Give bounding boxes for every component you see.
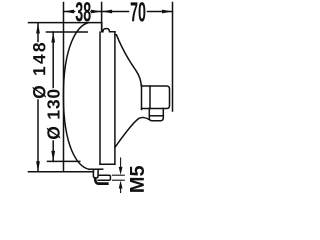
dim line d148 (37, 23, 39, 42)
dimension 38 line (64, 11, 75, 13)
extension line top130 (46, 31, 87, 33)
label d148 (33, 43, 46, 98)
M5 arrow shaft bottom (120, 188, 122, 193)
extension line top148 (29, 22, 102, 24)
extension line rim back (101, 3, 103, 32)
M5 tick top (112, 174, 124, 176)
housing back cylinder line (114, 32, 116, 164)
rim back corner (101, 23, 103, 32)
socket flange line (149, 86, 151, 109)
socket lower tab (149, 108, 163, 120)
rim inner edge (99, 32, 101, 164)
socket tab inner line (149, 115, 163, 117)
housing bottom cone slope (115, 117, 149, 147)
M5 arrow shaft top (120, 158, 122, 168)
M5 tick bottom (112, 179, 124, 181)
extension line housing rear (172, 3, 174, 112)
label d130 (47, 90, 60, 139)
extension line bottom148 (29, 171, 94, 173)
label M5 (130, 166, 144, 192)
arrow d130 up (51, 32, 55, 43)
arrow 38 left (64, 10, 75, 14)
arrow d148 up (36, 23, 40, 34)
arrow M5 up (119, 181, 123, 189)
arrow M5 down (119, 167, 123, 175)
lens curve (63, 23, 89, 170)
extension line lens front (63, 3, 65, 172)
label 70 (131, 2, 146, 22)
bracket top plate (89, 168, 103, 170)
socket neck line (141, 85, 143, 110)
housing bottom edge (100, 163, 115, 165)
arrow 38 right (91, 10, 102, 14)
bracket spring foot (95, 180, 107, 184)
dimension 70 line (102, 11, 129, 13)
bracket cup (93, 170, 98, 178)
housing top cone slope (115, 35, 141, 86)
top lug (102, 29, 115, 32)
socket block (142, 86, 170, 109)
label 38 (76, 2, 91, 22)
extension line bottom130 (48, 160, 80, 162)
arrow d148 down (36, 161, 40, 172)
M5 stud rod (98, 175, 110, 180)
arrow d130 down (51, 151, 55, 162)
arrow 70 left (102, 10, 113, 14)
dim line d130 (52, 32, 54, 88)
arrow 70 right (162, 10, 173, 14)
